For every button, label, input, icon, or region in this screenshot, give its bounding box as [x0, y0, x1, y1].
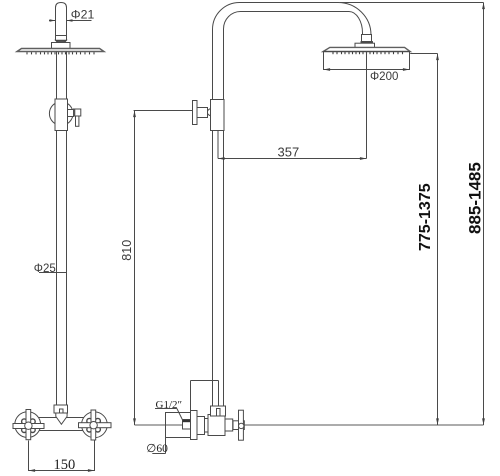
svg-text:810: 810	[120, 240, 134, 261]
svg-text:Φ200: Φ200	[370, 71, 398, 83]
svg-text:775-1375: 775-1375	[417, 183, 434, 251]
svg-text:Φ25: Φ25	[34, 263, 56, 275]
svg-text:Φ21: Φ21	[71, 8, 95, 22]
svg-text:357: 357	[278, 145, 300, 160]
svg-text:150: 150	[54, 457, 76, 473]
svg-text:∅60: ∅60	[146, 443, 168, 455]
svg-text:G1/2″: G1/2″	[156, 399, 183, 411]
svg-text:885-1485: 885-1485	[466, 162, 485, 234]
